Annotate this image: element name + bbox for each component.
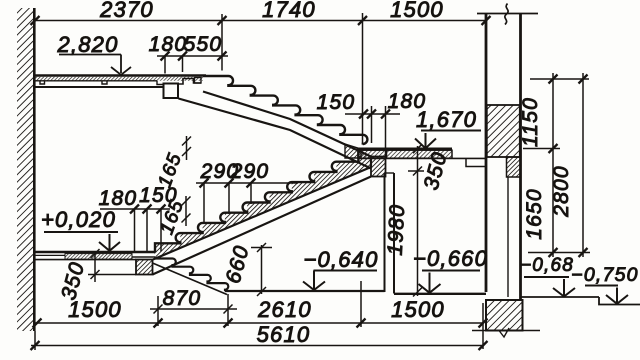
middle flight steps (cut, hatched) [153, 149, 371, 260]
elevation mark -0,68 [524, 277, 575, 297]
elevation mark -0,750 [585, 286, 628, 304]
dim 350/1980 at landing/basement wall [408, 144, 424, 296]
top dimension line 2370/1740/1500 [34, 13, 486, 143]
hanging beam block at upper slab end [164, 84, 179, 99]
svg-text:1650: 1650 [523, 188, 546, 240]
elevation mark -0,640 [303, 271, 377, 291]
svg-text:1150: 1150 [519, 97, 542, 147]
elevation mark -0,660 [419, 271, 481, 293]
ground support block (hatched) [136, 260, 153, 275]
svg-text:−0,68: −0,68 [520, 255, 574, 276]
basement floor -0,640 [225, 290, 385, 292]
elevation mark +0,020 [44, 232, 120, 251]
svg-text:−0,640: −0,640 [303, 247, 378, 272]
middle flight stringer [153, 158, 372, 275]
svg-text:550: 550 [184, 33, 223, 56]
right vertical dims 1150/1650/2800 [523, 73, 590, 257]
ground floor slab +0,020 [34, 252, 155, 260]
dim 660 under flight [251, 243, 272, 296]
bottom dim row 5610 [31, 345, 483, 347]
intermediate landing slab 1,670 [357, 149, 487, 167]
riser dim 165 lower [182, 196, 191, 226]
left wall (hatched cut) [17, 8, 34, 331]
svg-text:1980: 1980 [384, 203, 410, 256]
hatched bottom step of upper flight on landing [345, 144, 361, 158]
svg-text:290: 290 [230, 160, 270, 183]
svg-text:2610: 2610 [257, 297, 312, 322]
short basement flight steps [153, 259, 229, 295]
foundation block (hatched) [472, 300, 540, 337]
svg-text:150: 150 [317, 91, 356, 114]
right wall corbel block under landing [507, 157, 521, 297]
svg-text:2800: 2800 [550, 165, 573, 218]
svg-text:2,820: 2,820 [56, 32, 118, 57]
right wall hatched cut block [487, 105, 520, 157]
svg-text:180: 180 [149, 33, 188, 56]
dim 290/290 on middle flight [196, 183, 298, 224]
elevation mark 1,670 [415, 131, 481, 149]
svg-text:1,670: 1,670 [416, 107, 477, 132]
dim 180/550 at top [157, 56, 228, 74]
svg-text:1500: 1500 [68, 297, 122, 322]
bottom dim row 1500/870/2610/1500 [34, 281, 483, 350]
svg-text:−0,660: −0,660 [413, 246, 488, 271]
upper flight stringer [179, 92, 372, 169]
svg-text:1500: 1500 [390, 0, 444, 22]
upper stair flight steps (elevation) [203, 76, 367, 145]
svg-text:1500: 1500 [391, 297, 445, 322]
svg-text:+0,020: +0,020 [41, 207, 116, 232]
svg-text:5610: 5610 [257, 322, 311, 347]
upper floor slab top 2,820 [34, 76, 206, 88]
svg-text:2370: 2370 [99, 0, 154, 22]
svg-text:1740: 1740 [262, 0, 316, 22]
svg-text:−0,750: −0,750 [571, 264, 638, 286]
dim 180/150 left cluster [100, 209, 170, 252]
svg-text:870: 870 [163, 287, 202, 310]
outside ground level -0,68 [521, 296, 600, 298]
slab end step detail [178, 78, 201, 85]
right wall edges with break at top [477, 4, 538, 301]
outside ground step down [599, 297, 640, 305]
riser dim 165 upper [182, 136, 191, 160]
basement floor -0,660 [394, 293, 486, 295]
elevation mark 2,820 [59, 55, 131, 75]
dim 150/180 above landing [345, 106, 400, 156]
dim 870 raised line [150, 294, 237, 326]
basement wall under landing [385, 173, 395, 294]
landing support beam (hatched) [371, 157, 386, 177]
dim 350 at ground slab [88, 249, 136, 282]
